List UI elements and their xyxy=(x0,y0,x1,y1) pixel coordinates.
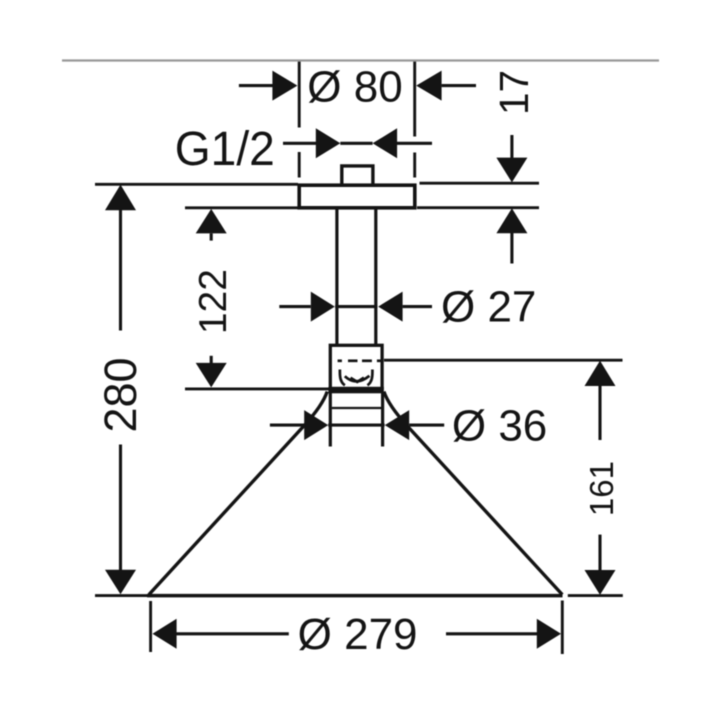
svg-text:Ø 27: Ø 27 xyxy=(441,282,536,331)
svg-text:161: 161 xyxy=(583,461,620,516)
svg-text:122: 122 xyxy=(192,269,235,334)
svg-text:G1/2: G1/2 xyxy=(175,123,275,176)
svg-text:Ø 279: Ø 279 xyxy=(298,610,418,659)
svg-text:Ø 36: Ø 36 xyxy=(452,402,547,451)
svg-text:Ø 80: Ø 80 xyxy=(307,63,402,112)
svg-text:17: 17 xyxy=(491,70,537,115)
svg-text:280: 280 xyxy=(95,357,146,432)
